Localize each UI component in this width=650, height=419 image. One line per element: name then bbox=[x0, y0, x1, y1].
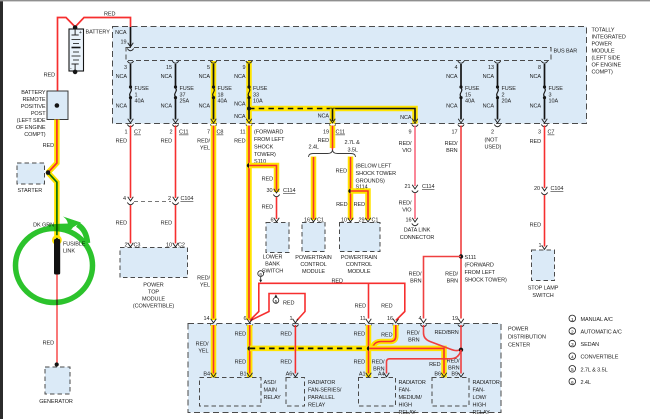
svg-text:BRN: BRN bbox=[410, 279, 421, 285]
svg-text:C7: C7 bbox=[548, 130, 555, 136]
wire trace highlight pin 19 drop bbox=[330, 109, 336, 124]
wire RED C104 to power top module pin 10 C2 bbox=[175, 205, 177, 244]
svg-text:RED: RED bbox=[104, 12, 115, 18]
svg-text:RADIATOR: RADIATOR bbox=[473, 380, 500, 386]
svg-text:1: 1 bbox=[539, 243, 542, 249]
svg-text:HIGH: HIGH bbox=[473, 403, 487, 409]
callout 5 (2.7L & 3.5L) bbox=[273, 294, 279, 304]
svg-text:FUSE: FUSE bbox=[502, 86, 517, 92]
svg-text:11: 11 bbox=[360, 316, 366, 322]
svg-text:BATTERY: BATTERY bbox=[21, 90, 46, 96]
wire RED/BRN S111 branch to PDC pin 4 bbox=[424, 257, 462, 319]
svg-text:NCA: NCA bbox=[446, 74, 458, 80]
svg-text:FUSE: FUSE bbox=[218, 86, 233, 92]
svg-text:RED: RED bbox=[336, 169, 347, 175]
wire RED 2.7L/3.5L branch to S114 (highlighted) bbox=[348, 157, 354, 221]
svg-text:19: 19 bbox=[121, 40, 127, 46]
svg-text:NCA: NCA bbox=[234, 114, 246, 120]
svg-text:NCA: NCA bbox=[161, 74, 173, 80]
svg-text:MEDIUM/: MEDIUM/ bbox=[399, 395, 423, 401]
svg-text:POWERTRAIN: POWERTRAIN bbox=[295, 255, 331, 261]
svg-text:USED): USED) bbox=[485, 145, 502, 151]
svg-text:2: 2 bbox=[125, 242, 128, 248]
svg-text:FUSE: FUSE bbox=[253, 86, 268, 92]
svg-text:RED: RED bbox=[234, 139, 245, 145]
svg-text:SHOCK TOWER: SHOCK TOWER bbox=[356, 171, 397, 177]
callout 6 (2.4L) bbox=[258, 271, 264, 283]
legend callouts bbox=[569, 315, 622, 386]
annotation green circle around fusible link bbox=[16, 217, 93, 303]
node splice at starter bbox=[46, 170, 51, 175]
svg-text:8: 8 bbox=[538, 65, 541, 71]
svg-text:ASD/: ASD/ bbox=[264, 380, 277, 386]
svg-text:RED: RED bbox=[530, 139, 541, 145]
wire RED/BRN splice to B9 bbox=[460, 350, 462, 374]
TIPM label bbox=[592, 28, 626, 76]
svg-text:REMOTE: REMOTE bbox=[22, 97, 45, 103]
svg-text:RED/: RED/ bbox=[445, 141, 458, 147]
svg-text:RED: RED bbox=[355, 303, 366, 309]
svg-text:YEL: YEL bbox=[200, 146, 210, 152]
svg-text:NCA: NCA bbox=[116, 74, 128, 80]
svg-text:3: 3 bbox=[538, 130, 541, 136]
svg-text:VIO: VIO bbox=[402, 148, 412, 154]
node generator terminal bbox=[55, 362, 59, 366]
svg-text:13: 13 bbox=[488, 65, 494, 71]
connector C104 cavity 20 bbox=[541, 187, 547, 195]
lower bank switch box bbox=[266, 223, 289, 253]
svg-text:(LEFT SIDE: (LEFT SIDE bbox=[17, 118, 46, 124]
wire trace dashed jumper B1 column to pin11 column bbox=[250, 346, 369, 352]
svg-text:LINK: LINK bbox=[63, 249, 75, 255]
svg-text:SHOCK: SHOCK bbox=[254, 145, 274, 151]
wire RED C114 to lower bank switch pin 6 bbox=[276, 197, 278, 219]
svg-text:RED/: RED/ bbox=[196, 342, 209, 348]
svg-text:COMPT): COMPT) bbox=[24, 132, 45, 138]
svg-text:RELAY: RELAY bbox=[264, 395, 282, 401]
svg-text:B1: B1 bbox=[240, 372, 247, 378]
svg-text:14: 14 bbox=[204, 316, 210, 322]
svg-text:NCA: NCA bbox=[234, 102, 246, 108]
svg-text:NCA: NCA bbox=[115, 30, 127, 36]
wire battery feed pin 19 into bus bar bbox=[130, 27, 132, 47]
splice S110 note bbox=[254, 130, 285, 166]
svg-text:RED: RED bbox=[43, 143, 54, 149]
svg-text:(BELOW LEFT: (BELOW LEFT bbox=[356, 164, 393, 170]
svg-text:37: 37 bbox=[180, 92, 186, 98]
svg-text:PARALLEL: PARALLEL bbox=[308, 395, 335, 401]
wire RED pin1 C7 to C104 bbox=[130, 126, 132, 199]
svg-text:POWERTRAIN: POWERTRAIN bbox=[341, 255, 377, 261]
stop lamp switch box bbox=[532, 250, 555, 281]
svg-text:18: 18 bbox=[218, 92, 224, 98]
svg-text:RED/: RED/ bbox=[372, 360, 385, 366]
svg-text:4: 4 bbox=[571, 355, 574, 361]
svg-text:15: 15 bbox=[166, 65, 172, 71]
svg-text:MODULE: MODULE bbox=[142, 297, 165, 303]
battery B1 bbox=[69, 25, 84, 74]
svg-text:16: 16 bbox=[387, 316, 393, 322]
wire RED/BRN pin 19 to splice bbox=[460, 325, 462, 350]
svg-text:10A: 10A bbox=[253, 99, 263, 105]
wire RED highlighted: post to starter splice (yellow trace) bbox=[48, 120, 57, 173]
connector C104 cavity 2 bbox=[172, 197, 178, 205]
node splice on pin6 column bbox=[248, 346, 252, 350]
power distribution center box bbox=[188, 324, 501, 413]
svg-text:FAN-SERIES/: FAN-SERIES/ bbox=[308, 388, 342, 394]
svg-text:DISTRIBUTION: DISTRIBUTION bbox=[508, 335, 546, 341]
wire RED S110 branch to C114 (highlighted) bbox=[249, 166, 277, 193]
powertrain control module box 2 bbox=[340, 223, 381, 252]
svg-text:BRN: BRN bbox=[447, 279, 458, 285]
svg-text:RED/: RED/ bbox=[197, 139, 210, 145]
svg-text:15: 15 bbox=[465, 92, 471, 98]
node battery remote positive post box bbox=[47, 91, 68, 120]
svg-text:NCA: NCA bbox=[199, 74, 211, 80]
fuse column F3 10A bbox=[530, 61, 564, 136]
wire RED tap to PDC pin 11 bbox=[368, 283, 370, 318]
fuse column F15 40A bbox=[446, 61, 480, 136]
wire trace highlight fuse 18 column bbox=[211, 61, 217, 124]
svg-text:C104: C104 bbox=[551, 186, 564, 192]
relay radiator fan medium/high box bbox=[359, 378, 396, 407]
svg-text:MODULE: MODULE bbox=[592, 49, 615, 55]
svg-text:BUS BAR: BUS BAR bbox=[554, 49, 578, 55]
node splice right bbox=[459, 348, 463, 352]
svg-text:OF ENGINE: OF ENGINE bbox=[16, 125, 46, 131]
svg-text:NCA: NCA bbox=[199, 104, 211, 110]
svg-text:6: 6 bbox=[244, 316, 247, 322]
svg-text:COMPT): COMPT) bbox=[592, 70, 613, 76]
svg-text:BANK: BANK bbox=[265, 262, 280, 268]
PDC pin 11 entry bbox=[365, 319, 371, 327]
svg-text:POST: POST bbox=[31, 111, 46, 117]
svg-text:4: 4 bbox=[455, 65, 458, 71]
connector C104 cavity 4 bbox=[127, 197, 133, 205]
svg-text:LOWER: LOWER bbox=[263, 255, 283, 261]
svg-text:SWITCH: SWITCH bbox=[532, 293, 553, 299]
svg-text:MODULE: MODULE bbox=[347, 269, 370, 275]
power top module box bbox=[120, 248, 188, 278]
svg-text:6: 6 bbox=[271, 217, 274, 223]
svg-text:NCA: NCA bbox=[318, 114, 330, 120]
connector C114 cavity 30 bbox=[273, 189, 279, 197]
module TIPM (Totally Integrated Power Module) box bbox=[113, 27, 587, 124]
wire RED/YEL pin7 C8 to PDC pin 14 (highlighted) bbox=[211, 126, 217, 321]
svg-text:HIGH: HIGH bbox=[399, 403, 413, 409]
svg-text:GENERATOR: GENERATOR bbox=[39, 399, 73, 405]
svg-text:5: 5 bbox=[571, 367, 574, 373]
svg-text:2.7L &: 2.7L & bbox=[345, 140, 361, 146]
svg-text:NCA: NCA bbox=[530, 74, 542, 80]
PDC pin 16 entry bbox=[393, 319, 399, 327]
svg-text:C11: C11 bbox=[336, 130, 345, 136]
svg-text:3: 3 bbox=[571, 342, 574, 348]
svg-text:2.7L & 3.5L: 2.7L & 3.5L bbox=[581, 367, 608, 373]
svg-text:19: 19 bbox=[323, 130, 329, 136]
screenshot top window border bbox=[0, 0, 650, 1]
wire RED pin2 C11 to C104 bbox=[175, 126, 177, 199]
svg-text:40A: 40A bbox=[465, 99, 475, 105]
svg-text:NCA: NCA bbox=[483, 104, 495, 110]
svg-text:CONTROL: CONTROL bbox=[346, 262, 372, 268]
svg-text:+: + bbox=[79, 30, 82, 36]
svg-text:RELAY: RELAY bbox=[473, 410, 491, 416]
wire RED pin 11 through splice to A1 (highlighted) bbox=[366, 325, 372, 378]
svg-text:INTEGRATED: INTEGRATED bbox=[592, 35, 626, 41]
svg-text:NCA: NCA bbox=[400, 115, 412, 121]
connector C114 cavity 21 bbox=[412, 185, 418, 193]
relay radiator fan low/high box bbox=[432, 378, 469, 407]
node splice pin11 column bbox=[367, 346, 371, 350]
svg-text:20: 20 bbox=[534, 186, 540, 192]
svg-text:VIO: VIO bbox=[402, 208, 412, 214]
svg-text:10A: 10A bbox=[549, 99, 559, 105]
wire RED pin 3 C7 to C104 bbox=[544, 126, 546, 189]
svg-text:4: 4 bbox=[123, 196, 126, 202]
svg-text:RADIATOR: RADIATOR bbox=[399, 380, 426, 386]
screenshot left window border bbox=[0, 0, 3, 419]
fuse column F33 10A (highlighted) bbox=[234, 61, 268, 136]
svg-text:RED/: RED/ bbox=[399, 141, 412, 147]
wire RED/BRN splice to A4 bbox=[387, 350, 462, 374]
svg-text:RED: RED bbox=[43, 341, 54, 347]
svg-text:33: 33 bbox=[253, 92, 259, 98]
relay radiator fan medium/high label bbox=[399, 380, 426, 416]
svg-text:2: 2 bbox=[491, 130, 494, 136]
svg-text:FAN-: FAN- bbox=[399, 388, 411, 394]
node splice S111 bbox=[459, 254, 463, 258]
wire RED C104 to stop lamp switch pin 1 bbox=[544, 195, 546, 247]
svg-text:FAN-: FAN- bbox=[473, 388, 485, 394]
fusible link highlight ring bbox=[53, 236, 60, 243]
svg-text:RED: RED bbox=[354, 202, 365, 208]
svg-text:B6: B6 bbox=[434, 372, 441, 378]
svg-text:LOW/: LOW/ bbox=[473, 395, 487, 401]
svg-text:RED: RED bbox=[262, 205, 273, 211]
relay radiator fan series/parallel label bbox=[308, 380, 342, 409]
svg-text:POWER: POWER bbox=[592, 42, 612, 48]
svg-text:SWITCH: SWITCH bbox=[262, 269, 283, 275]
svg-text:(NOT: (NOT bbox=[485, 137, 499, 143]
generator box bbox=[45, 367, 70, 394]
node splice S114 bbox=[348, 189, 352, 193]
node pin 19 C11 drop from jumper bbox=[318, 114, 345, 136]
wire RED/VIO pin 9 to C114 bbox=[414, 126, 416, 187]
svg-text:2.4L: 2.4L bbox=[309, 144, 319, 150]
svg-text:RED: RED bbox=[336, 202, 347, 208]
svg-text:C11: C11 bbox=[179, 130, 188, 136]
svg-text:RED: RED bbox=[262, 177, 273, 183]
PDC pin 14 entry bbox=[210, 319, 216, 327]
svg-text:AUTOMATIC A/C: AUTOMATIC A/C bbox=[581, 330, 622, 336]
wire RED fusible link to generator bbox=[56, 275, 58, 365]
svg-text:POSITIVE: POSITIVE bbox=[21, 104, 46, 110]
svg-text:RED: RED bbox=[280, 359, 291, 365]
svg-text:RED: RED bbox=[354, 331, 365, 337]
fuse column F37 25A bbox=[161, 61, 195, 136]
svg-text:RED: RED bbox=[381, 303, 392, 309]
svg-text:SEDAN: SEDAN bbox=[581, 342, 600, 348]
wire RED 2.4L branch to PCM pin 16 C1 (highlighted) bbox=[311, 157, 317, 221]
svg-text:FROM LEFT: FROM LEFT bbox=[254, 137, 285, 143]
wire trace highlight fuse 33 column bbox=[246, 61, 252, 124]
svg-text:2: 2 bbox=[168, 196, 171, 202]
svg-text:FUSE: FUSE bbox=[135, 86, 150, 92]
svg-text:(LEFT SIDE: (LEFT SIDE bbox=[592, 56, 621, 62]
fusible link F1 bbox=[54, 239, 60, 275]
svg-text:RED: RED bbox=[530, 223, 541, 229]
svg-text:A1: A1 bbox=[359, 372, 366, 378]
PDC pin 6 entry bbox=[247, 319, 253, 327]
svg-text:RED: RED bbox=[429, 362, 440, 368]
svg-text:NCA: NCA bbox=[116, 104, 128, 110]
splice S114 note bbox=[356, 164, 397, 191]
svg-text:FUSE: FUSE bbox=[549, 86, 564, 92]
svg-text:FUSE: FUSE bbox=[180, 86, 195, 92]
svg-text:11: 11 bbox=[240, 130, 246, 136]
svg-text:CONVERTIBLE: CONVERTIBLE bbox=[581, 355, 619, 361]
svg-text:C8: C8 bbox=[217, 130, 224, 136]
wire trace highlight jumper solid segment to pin 9 bbox=[333, 109, 416, 124]
svg-text:CONTROL: CONTROL bbox=[300, 262, 326, 268]
svg-text:1: 1 bbox=[290, 316, 293, 322]
svg-text:4: 4 bbox=[419, 316, 422, 322]
svg-text:RED: RED bbox=[44, 72, 55, 78]
svg-text:RED/: RED/ bbox=[409, 272, 422, 278]
svg-text:7: 7 bbox=[207, 130, 210, 136]
svg-text:RED/BRN: RED/BRN bbox=[435, 330, 459, 336]
svg-text:GROUNDS): GROUNDS) bbox=[356, 179, 386, 185]
split brace 2.4L / 2.7L & 3.5L bbox=[309, 150, 356, 158]
svg-text:(FORWARD: (FORWARD bbox=[465, 262, 494, 268]
svg-text:30: 30 bbox=[267, 188, 273, 194]
svg-text:40A: 40A bbox=[218, 99, 228, 105]
wire RED pin 1 to A6 bbox=[294, 325, 296, 374]
svg-text:2: 2 bbox=[571, 329, 574, 335]
svg-text:1: 1 bbox=[571, 317, 574, 323]
svg-text:3: 3 bbox=[549, 92, 552, 98]
relay ASD/MAIN label bbox=[264, 380, 282, 401]
wire trace highlight jumper dashed segment bbox=[249, 106, 333, 112]
svg-text:B9: B9 bbox=[451, 372, 458, 378]
svg-text:NCA: NCA bbox=[161, 104, 173, 110]
relay radiator fan series/parallel box bbox=[286, 378, 305, 407]
svg-text:20A: 20A bbox=[502, 99, 512, 105]
splice S111 note bbox=[465, 255, 507, 284]
wire RED/YEL pin 14 to B4 (highlighted) bbox=[211, 325, 217, 378]
svg-text:DATA LINK: DATA LINK bbox=[404, 228, 431, 234]
svg-text:1: 1 bbox=[135, 92, 138, 98]
wire RED pin19 C11 down to split (highlighted) bbox=[330, 126, 336, 149]
svg-text:MODULE: MODULE bbox=[302, 269, 325, 275]
svg-text:NCA: NCA bbox=[446, 104, 458, 110]
power distribution center label bbox=[508, 327, 546, 349]
powertrain control module box 1 bbox=[302, 223, 325, 252]
lower bank switch label bbox=[262, 255, 283, 275]
svg-text:6: 6 bbox=[571, 380, 574, 386]
bus bar box bbox=[126, 48, 551, 61]
PDC pin 4 entry bbox=[420, 319, 426, 327]
svg-text:1: 1 bbox=[125, 130, 128, 136]
svg-text:(CONVERTIBLE): (CONVERTIBLE) bbox=[133, 304, 175, 310]
svg-text:5: 5 bbox=[275, 299, 278, 305]
svg-text:RED/: RED/ bbox=[407, 330, 420, 336]
svg-text:RED: RED bbox=[332, 278, 343, 284]
wire RED/VIO C114 to data link connector pin 16 bbox=[414, 193, 416, 219]
svg-text:POWER: POWER bbox=[508, 327, 528, 333]
svg-text:RED: RED bbox=[235, 331, 246, 337]
wire DK GRN starter to fusible link bbox=[48, 173, 57, 240]
svg-text:A6: A6 bbox=[286, 372, 293, 378]
svg-text:TOTALLY: TOTALLY bbox=[592, 28, 615, 34]
svg-text:19: 19 bbox=[452, 316, 458, 322]
node splice S110 bbox=[247, 163, 251, 167]
svg-text:CONNECTOR: CONNECTOR bbox=[400, 235, 435, 241]
svg-text:RED: RED bbox=[280, 331, 291, 337]
wire RED/BRN pin 4 curve to splice bbox=[424, 325, 461, 351]
svg-text:RED/: RED/ bbox=[445, 272, 458, 278]
svg-text:BRN: BRN bbox=[408, 337, 419, 343]
svg-text:25A: 25A bbox=[180, 99, 190, 105]
wire RED pin 6 to B1 (highlighted) bbox=[247, 325, 253, 378]
wire RED/BRN pin 17 to S111 to PDC pin 19 bbox=[460, 126, 462, 319]
wire RED C104 to power top module pin 2 C3 bbox=[130, 205, 132, 244]
battery remote positive post label bbox=[16, 90, 46, 138]
svg-text:RED: RED bbox=[161, 139, 172, 145]
svg-text:RADIATOR: RADIATOR bbox=[308, 380, 335, 386]
svg-text:SHOCK TOWER): SHOCK TOWER) bbox=[465, 277, 507, 283]
svg-text:2.4L: 2.4L bbox=[581, 380, 591, 386]
wire RED splice to B6 (highlighted) bbox=[369, 348, 444, 377]
svg-text:RED: RED bbox=[116, 139, 127, 145]
wire RED feed (inner) pin6 to pin1 bbox=[251, 294, 306, 321]
svg-text:9: 9 bbox=[243, 65, 246, 71]
svg-text:B4: B4 bbox=[203, 372, 210, 378]
svg-text:5: 5 bbox=[207, 65, 210, 71]
svg-text:RED: RED bbox=[318, 138, 329, 144]
svg-text:RED: RED bbox=[116, 221, 127, 227]
svg-text:C114: C114 bbox=[422, 184, 434, 190]
svg-text:YEL: YEL bbox=[198, 349, 208, 355]
svg-text:RED: RED bbox=[381, 332, 392, 338]
svg-text:BRN: BRN bbox=[446, 148, 457, 154]
svg-text:RELAY: RELAY bbox=[399, 410, 417, 416]
svg-text:MAIN: MAIN bbox=[264, 388, 278, 394]
svg-text:21: 21 bbox=[405, 184, 411, 190]
svg-text:FROM LEFT: FROM LEFT bbox=[465, 270, 496, 276]
svg-text:C104: C104 bbox=[181, 196, 194, 202]
fuse column F2 20A bbox=[483, 61, 517, 151]
relay radiator fan low/high label bbox=[473, 380, 500, 416]
svg-text:YEL: YEL bbox=[200, 283, 210, 289]
svg-text:17: 17 bbox=[452, 130, 458, 136]
relay ASD/MAIN box bbox=[200, 378, 262, 407]
svg-text:NCA: NCA bbox=[234, 74, 246, 80]
PDC pin 1 entry bbox=[292, 319, 298, 327]
svg-text:A4: A4 bbox=[378, 372, 385, 378]
fuse column F1 40A bbox=[116, 61, 150, 136]
svg-text:BATTERY: BATTERY bbox=[86, 30, 111, 36]
svg-text:(FORWARD: (FORWARD bbox=[254, 130, 283, 136]
fuse column F18 40A (highlighted) bbox=[199, 61, 233, 136]
svg-text:STARTER: STARTER bbox=[18, 188, 43, 194]
svg-text:TOP: TOP bbox=[148, 290, 159, 296]
svg-text:RED/: RED/ bbox=[399, 201, 412, 207]
svg-text:40A: 40A bbox=[135, 99, 145, 105]
svg-text:2: 2 bbox=[502, 92, 505, 98]
starter box bbox=[17, 163, 45, 184]
